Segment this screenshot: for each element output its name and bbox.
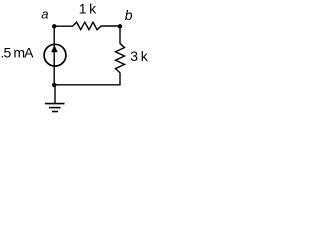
svg-text:1 k: 1 k — [79, 1, 97, 17]
svg-text:.5 mA: .5 mA — [1, 44, 35, 60]
svg-text:a: a — [41, 7, 48, 22]
svg-text:b: b — [125, 7, 133, 23]
svg-text:3 k: 3 k — [130, 48, 148, 64]
